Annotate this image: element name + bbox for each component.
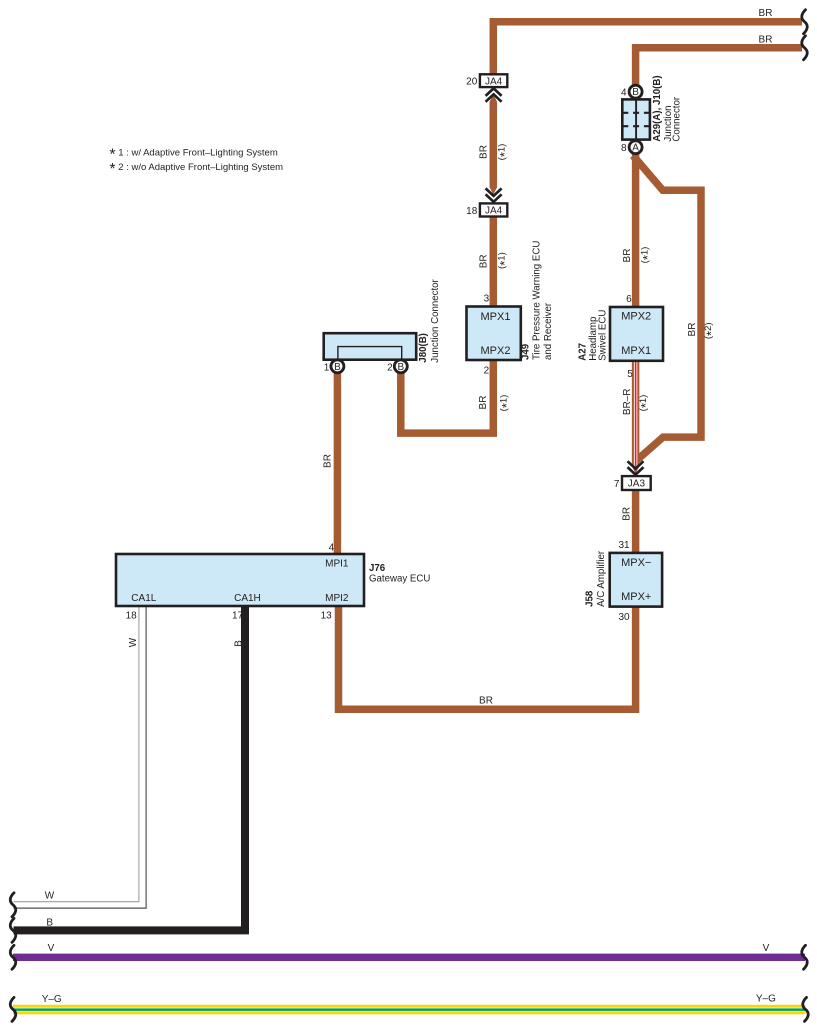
svg-text:BR: BR	[687, 323, 698, 337]
svg-text:18: 18	[466, 206, 478, 217]
svg-text:B: B	[632, 87, 639, 98]
svg-text:MPI1: MPI1	[325, 559, 349, 570]
svg-text:J80(B): J80(B)	[418, 333, 429, 363]
svg-text:Gateway ECU: Gateway ECU	[369, 574, 430, 585]
svg-text:4: 4	[329, 543, 335, 554]
svg-text:J58: J58	[584, 590, 595, 607]
svg-text:Junction Connector: Junction Connector	[430, 278, 441, 362]
svg-text:MPI2: MPI2	[325, 593, 349, 604]
svg-text:Tire Pressure Warning ECU: Tire Pressure Warning ECU	[532, 241, 543, 360]
svg-text:8: 8	[621, 143, 627, 154]
svg-text:MPX2: MPX2	[481, 345, 511, 357]
svg-text:30: 30	[618, 612, 630, 623]
svg-text:BR: BR	[622, 507, 633, 521]
svg-text:13: 13	[321, 611, 333, 622]
svg-text:J49: J49	[521, 343, 532, 360]
svg-text:B: B	[397, 362, 404, 373]
svg-text:BR: BR	[323, 454, 334, 468]
svg-text:MPX−: MPX−	[621, 557, 651, 569]
svg-text:7: 7	[614, 479, 620, 490]
svg-text:BR: BR	[478, 145, 489, 159]
svg-text:BR: BR	[759, 34, 773, 45]
svg-text:2: 2	[387, 363, 393, 374]
svg-text:BR: BR	[478, 254, 489, 268]
svg-text:and Receiver: and Receiver	[543, 302, 554, 360]
svg-text:BR: BR	[759, 8, 773, 19]
svg-text:BR: BR	[478, 396, 489, 410]
svg-text:CA1L: CA1L	[131, 593, 156, 604]
svg-text:MPX1: MPX1	[621, 345, 651, 357]
svg-text:2: 2	[484, 365, 490, 376]
svg-text:5: 5	[627, 369, 633, 380]
svg-text:Y–G: Y–G	[42, 994, 62, 1005]
svg-text:V: V	[48, 943, 55, 954]
svg-text:B: B	[46, 918, 53, 929]
svg-text:BR–R: BR–R	[622, 388, 633, 415]
svg-text:BR: BR	[622, 249, 633, 263]
svg-text:6: 6	[626, 294, 632, 305]
svg-text:3: 3	[484, 293, 490, 304]
svg-text:20: 20	[466, 77, 478, 88]
svg-text:1: 1	[324, 363, 330, 374]
svg-text:JA4: JA4	[485, 206, 503, 217]
svg-text:JA3: JA3	[628, 479, 646, 490]
svg-text:BR: BR	[479, 695, 493, 706]
svg-text:A/C Amplifier: A/C Amplifier	[596, 550, 607, 607]
svg-text:4: 4	[621, 87, 627, 98]
svg-text:V: V	[763, 943, 770, 954]
svg-text:W: W	[45, 891, 55, 902]
svg-text:J76: J76	[369, 563, 386, 574]
svg-text:B: B	[234, 640, 245, 647]
svg-text:17: 17	[232, 611, 244, 622]
svg-text:31: 31	[618, 540, 630, 551]
svg-text:Connector: Connector	[671, 96, 682, 141]
svg-text:Swivel ECU: Swivel ECU	[598, 310, 609, 361]
svg-text:JA4: JA4	[485, 76, 503, 87]
svg-text:B: B	[334, 362, 341, 373]
svg-text:A29(A), J10(B): A29(A), J10(B)	[652, 75, 663, 141]
svg-text:W: W	[128, 637, 139, 647]
svg-text:Y–G: Y–G	[756, 994, 776, 1005]
svg-text:18: 18	[126, 611, 138, 622]
svg-text:A: A	[632, 143, 639, 154]
svg-text:MPX+: MPX+	[621, 591, 651, 603]
svg-text:MPX1: MPX1	[481, 311, 511, 323]
svg-text:MPX2: MPX2	[621, 311, 651, 323]
svg-text:CA1H: CA1H	[234, 593, 261, 604]
